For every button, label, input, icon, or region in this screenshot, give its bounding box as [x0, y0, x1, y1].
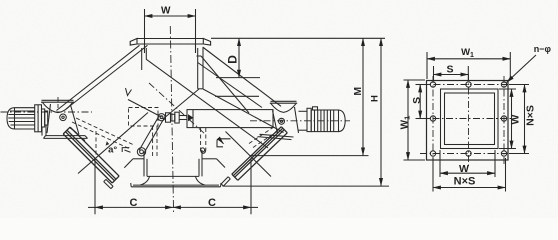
- dimension W1 top: [427, 47, 510, 79]
- link guide line: [128, 100, 162, 118]
- left pivot circle: [60, 114, 67, 121]
- left actuator housing: [47, 104, 85, 141]
- flap plate left: [78, 113, 148, 174]
- dimension NxS bottom: [433, 158, 506, 192]
- bell crank link: [139, 116, 164, 153]
- flap center dashed diagonal: [149, 83, 205, 134]
- outlet shoulder left: [124, 159, 144, 168]
- left dish center line: [57, 97, 59, 108]
- inlet inner duct right: [198, 48, 203, 89]
- opening outer square: [441, 89, 499, 149]
- small pivot dot right neck: [201, 148, 205, 152]
- right base plate: [258, 134, 294, 139]
- dimension M: [250, 38, 369, 155]
- right actuator housing: [273, 107, 299, 134]
- pipe bracket: [217, 139, 231, 147]
- body upper-right inner edge: [198, 63, 262, 108]
- dimension C: [88, 158, 258, 214]
- left funnel dish: [41, 100, 74, 112]
- left gearmotor: [7, 105, 48, 132]
- left hidden flap dashes: [72, 118, 134, 149]
- bolt holes: [430, 82, 506, 156]
- internal ledge line: [215, 95, 259, 97]
- left actuator center line: [1, 111, 93, 113]
- top reference line: [211, 37, 385, 39]
- dashed guide rectangle: [129, 108, 159, 127]
- right pivot circle: [279, 118, 285, 124]
- bolt row center lines: [419, 74, 516, 168]
- hanger rod right with U end: [201, 128, 206, 153]
- dimension S top: [434, 64, 469, 80]
- outer square: [427, 81, 509, 161]
- bell crank upper pivot: [158, 114, 165, 121]
- right drive tube: [299, 111, 308, 130]
- vertical center line: [170, 26, 173, 215]
- dimension S left: [411, 85, 430, 119]
- dimension W1 left: [399, 80, 425, 160]
- angle a label: [96, 131, 131, 156]
- dimension W top: [145, 6, 196, 44]
- support bracket left: [42, 125, 46, 136]
- left base plate: [44, 136, 88, 139]
- flap rod right duct to crank: [163, 89, 199, 119]
- flap plate right: [226, 132, 272, 177]
- bell crank lower pivot: [137, 148, 145, 156]
- actuator cylinder: [187, 110, 273, 128]
- lower-left chute band: [63, 127, 119, 183]
- lower-right chute band: [232, 127, 287, 181]
- lower-left flange tabs: [104, 179, 113, 188]
- outlet shoulder right: [202, 159, 226, 168]
- body upper-right edge: [203, 47, 281, 106]
- lower-right flange tabs: [221, 177, 230, 186]
- right funnel dish: [270, 101, 297, 112]
- clevis couplers: [166, 112, 188, 123]
- hanger rods dashed left: [153, 126, 157, 158]
- chute wall line 2: [203, 89, 284, 133]
- dimension H: [223, 38, 390, 186]
- weld mark: [126, 88, 132, 96]
- right gearmotor: [307, 107, 345, 132]
- dimension NxS right: [509, 85, 536, 154]
- dimension W right: [499, 89, 521, 149]
- flap plate diagonal from left duct: [146, 59, 268, 148]
- dimension W bottom: [440, 150, 495, 177]
- body upper-left edge: [57, 45, 140, 110]
- outlet neck: [144, 150, 202, 176]
- bottom outlet flange: [131, 176, 221, 186]
- dimension D: [216, 38, 260, 77]
- right hidden flap dashes: [249, 126, 280, 148]
- opening inner square: [445, 93, 495, 145]
- bolt hole callout n-phi: [507, 44, 552, 82]
- rod end pointer: [188, 114, 194, 121]
- body upper-left inner edge: [66, 45, 148, 109]
- right chute inner edge steep: [197, 55, 202, 57]
- top inlet flange: [130, 39, 210, 54]
- inlet inner duct left: [142, 48, 147, 70]
- right actuator center line: [250, 120, 350, 122]
